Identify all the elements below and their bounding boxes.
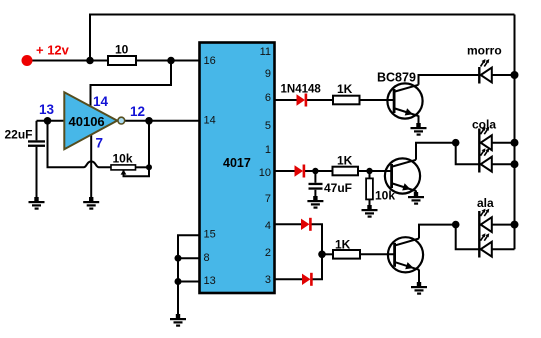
wire 4017 pin 3 stub xyxy=(275,278,303,280)
wire +12V right bus xyxy=(514,15,516,250)
wire RC node down to pot xyxy=(48,121,84,168)
capacitor C2 47uF xyxy=(309,183,323,190)
svg-text:14: 14 xyxy=(204,115,216,127)
wire VDD branch to 40106 pin 14 xyxy=(91,61,172,108)
wire LED morro to bus xyxy=(492,74,515,76)
wire Q3 emitter to ground xyxy=(418,270,420,287)
junction top-rail tap xyxy=(86,57,94,65)
junction VDD branch xyxy=(167,57,175,65)
wire join to R6 xyxy=(322,253,333,255)
wire ala LED1 to bus xyxy=(492,224,515,226)
svg-text:ala: ala xyxy=(477,196,494,210)
svg-text:10: 10 xyxy=(115,43,129,57)
wire diode OR join xyxy=(311,224,323,279)
LED D4a cola top xyxy=(479,127,492,173)
wire Q1 collector to LED morro xyxy=(419,75,480,85)
inverter U1 40106 xyxy=(64,92,117,149)
resistor R6 1K xyxy=(333,250,360,259)
ground reset bus xyxy=(170,314,186,327)
wire R4 to Q2 base xyxy=(358,170,392,172)
wire R3 to Q1 base xyxy=(360,99,395,101)
junction C2 node xyxy=(312,168,318,174)
svg-text:cola: cola xyxy=(472,118,496,132)
wire +12v to R1 xyxy=(28,60,108,62)
svg-text:2: 2 xyxy=(265,247,271,259)
wire pot right terminal xyxy=(136,166,150,168)
svg-text:7: 7 xyxy=(96,136,104,151)
ground C1 xyxy=(29,197,45,210)
svg-text:47uF: 47uF xyxy=(324,181,352,195)
junction bus cola top xyxy=(511,139,519,147)
resistor R1 10 xyxy=(108,56,136,65)
svg-text:12: 12 xyxy=(130,104,145,119)
IC U2 4017 xyxy=(200,43,275,294)
wire C1 bottom lead to ground xyxy=(36,147,38,202)
ground Q3 xyxy=(411,282,427,295)
wire 4017 pin 13 xyxy=(178,281,200,283)
resistor R5 10k xyxy=(366,178,373,199)
wire hop over pin7 wire xyxy=(84,161,112,167)
svg-text:3: 3 xyxy=(265,274,271,286)
wire D3 to C2 node xyxy=(305,170,333,172)
transistor Q3 xyxy=(388,237,423,272)
wire 4017 pin 6 stub xyxy=(275,99,298,101)
potentiometer R2 10k xyxy=(111,165,136,170)
svg-text:1K: 1K xyxy=(337,153,353,167)
svg-text:13: 13 xyxy=(39,102,55,117)
wire cola LED1 to bus xyxy=(492,142,515,144)
svg-text:6: 6 xyxy=(265,92,271,104)
wire 40106 pin 13 input xyxy=(37,120,66,122)
svg-text:8: 8 xyxy=(204,252,210,264)
capacitor C1 22uF xyxy=(28,140,45,147)
junction pot/output node xyxy=(146,164,152,170)
svg-text:1K: 1K xyxy=(337,82,353,96)
output bubble U1 pin 12 xyxy=(118,117,125,124)
junction RC node xyxy=(44,117,52,125)
wire 4017 pin 10 stub xyxy=(275,170,296,172)
ground C2 xyxy=(307,196,323,209)
LED D7a ala top xyxy=(479,209,492,258)
diode D6 1N4148 xyxy=(302,273,313,286)
svg-text:morro: morro xyxy=(467,44,502,58)
svg-text:1K: 1K xyxy=(335,238,351,252)
junction diode OR node xyxy=(318,251,326,259)
ground R5 xyxy=(362,205,378,218)
svg-text:+ 12v: + 12v xyxy=(36,43,70,58)
wire C1 top lead xyxy=(36,121,38,141)
wire Q2 emitter to ground xyxy=(415,191,417,197)
wire R1 to 4017 pin 16 xyxy=(136,60,200,62)
LED D7b ala bottom xyxy=(481,233,492,256)
wire ala branch to LED2 xyxy=(456,225,480,250)
junction bus ala top xyxy=(511,221,519,229)
wire Q2 collector to cola node xyxy=(416,143,456,160)
svg-text:10: 10 xyxy=(259,167,271,179)
svg-text:11: 11 xyxy=(260,46,271,58)
junction inverter output xyxy=(145,117,153,125)
svg-text:13: 13 xyxy=(204,275,216,287)
svg-text:40106: 40106 xyxy=(69,114,105,129)
ground Q2 xyxy=(408,192,424,205)
wire 4017 pin 8 xyxy=(178,257,200,259)
svg-text:4: 4 xyxy=(265,220,271,232)
wire 4017 pin 15 xyxy=(178,235,200,316)
svg-text:22uF: 22uF xyxy=(5,128,33,142)
svg-text:5: 5 xyxy=(265,120,271,132)
wire top rail xyxy=(90,15,515,61)
junction bus cola bottom xyxy=(511,160,519,168)
junction reset bus pin 8 xyxy=(175,255,182,262)
diode D5 1N4148 xyxy=(301,218,312,231)
svg-text:4017: 4017 xyxy=(223,156,251,170)
svg-text:1N4148: 1N4148 xyxy=(281,84,322,96)
wire Q1 emitter to ground xyxy=(418,116,420,128)
transistor Q2 xyxy=(385,158,420,193)
svg-text:15: 15 xyxy=(204,228,216,240)
wire Q3 collector to ala node xyxy=(419,225,456,239)
svg-text:BC879: BC879 xyxy=(377,71,416,85)
resistor R4 1K xyxy=(333,167,359,176)
wire 4017 pin 4 stub xyxy=(275,223,302,225)
junction R5 node xyxy=(366,168,372,174)
svg-text:7: 7 xyxy=(265,193,271,205)
wire R5 bottom lead to ground xyxy=(369,199,371,208)
wire C2 bottom lead to ground xyxy=(314,190,316,200)
junction reset bus pin 13 xyxy=(175,278,182,285)
svg-text:16: 16 xyxy=(204,55,216,67)
svg-text:14: 14 xyxy=(93,94,109,109)
wire C2 top lead xyxy=(314,171,316,183)
ground U1 pin 7 xyxy=(83,197,99,210)
diode D1 1N4148 xyxy=(297,94,308,107)
svg-text:1: 1 xyxy=(265,144,271,156)
svg-text:10k: 10k xyxy=(113,152,133,166)
wire R5 top lead xyxy=(369,171,371,178)
LED D4b cola bottom xyxy=(481,148,492,171)
LED D2 morro xyxy=(479,59,492,84)
junction bus morro xyxy=(511,71,519,79)
wire 40106 pin 12 to 4017 pin 14 xyxy=(125,120,200,122)
wire output node riser xyxy=(148,121,150,168)
resistor R3 1K xyxy=(333,96,360,105)
wire pot wiper to output node xyxy=(124,167,150,176)
svg-text:9: 9 xyxy=(265,68,271,80)
wire cola branch to LED2 xyxy=(456,143,480,165)
wire ala LED2 to bus xyxy=(492,248,515,250)
node +12V supply terminal xyxy=(22,55,33,66)
wire 40106 pin 7 to ground xyxy=(90,135,92,202)
pot wiper arrow xyxy=(121,170,127,175)
wire D1 to R3 xyxy=(306,99,333,101)
wire cola LED2 to bus xyxy=(492,163,515,165)
wire R6 to Q3 base xyxy=(360,253,395,255)
transistor Q1 BC879 xyxy=(387,83,422,118)
junction cola branch xyxy=(452,139,460,147)
junction ala branch xyxy=(452,221,460,229)
diode D3 1N4148 xyxy=(295,165,306,178)
ground Q1 xyxy=(411,123,427,136)
